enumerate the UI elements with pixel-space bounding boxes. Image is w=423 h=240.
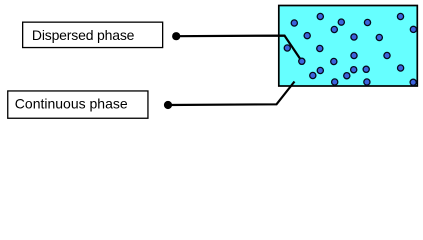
droplets xyxy=(284,13,416,85)
svg-text:Dispersed phase: Dispersed phase xyxy=(32,27,135,43)
leader dot (continuous phase) xyxy=(164,101,172,109)
leader dot (dispersed phase) xyxy=(172,32,180,40)
emulsion rectangle xyxy=(279,6,418,87)
svg-text:Continuous phase: Continuous phase xyxy=(15,96,128,112)
leader line (dispersed phase) xyxy=(176,36,301,62)
label box: Dispersed phase xyxy=(23,22,163,47)
label box: Continuous phase xyxy=(8,91,148,118)
leader line (continuous phase) xyxy=(168,82,295,106)
